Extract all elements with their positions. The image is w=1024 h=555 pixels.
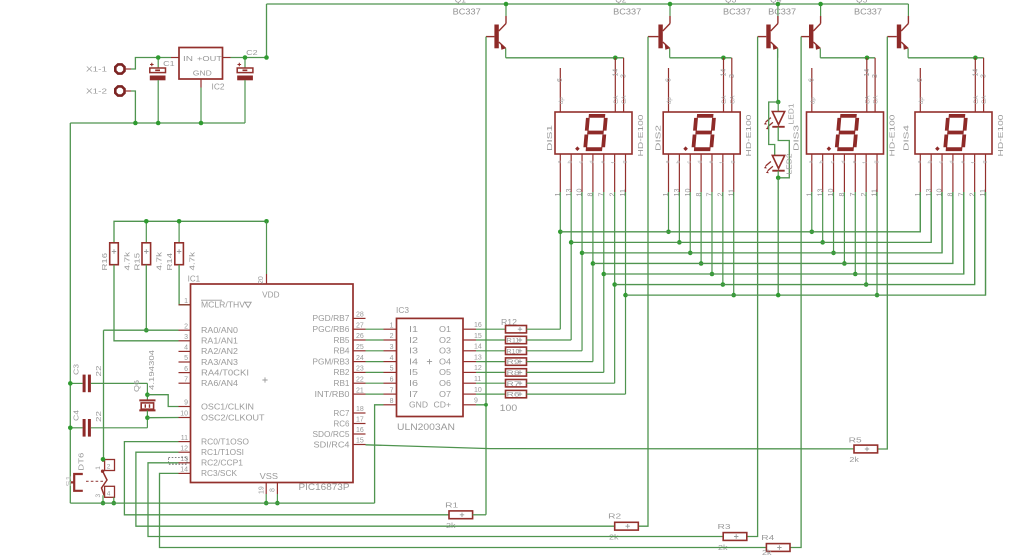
svg-text:21: 21 [356,387,364,394]
svg-text:BC337: BC337 [768,6,796,16]
resistor R12 [476,326,527,333]
svg-text:7: 7 [184,376,188,383]
wire RB1 to ULN input [366,382,384,384]
pin 24 PGM/RB3 [313,355,366,367]
wire RC0 to R1 row [124,442,449,515]
pin 1 MCLR/THV [179,298,252,310]
svg-text:4.7k: 4.7k [155,252,164,271]
svg-text:RC2/CCP1: RC2/CCP1 [201,459,243,468]
wire Q5 base drop to R5 [878,37,888,449]
wire PIC VDD pin riser [266,221,268,284]
svg-text:VSS: VSS [260,472,278,481]
junction C4 at ground drop [68,426,73,431]
pin 10 segment c of DIS1 [575,154,585,351]
svg-text:O4: O4 [439,357,452,366]
svg-text:8: 8 [390,398,394,405]
svg-text:I4: I4 [409,357,419,366]
pin 10 O7 [439,387,482,399]
wire Q3 emitter to LED chain [777,48,779,102]
svg-text:S1: S1 [64,476,73,487]
svg-text:3: 3 [184,334,188,341]
wire segment row 3 to riser [527,350,583,352]
transistor Q5 BC337 [887,4,908,58]
svg-text:d: d [949,160,955,163]
svg-text:X1-1: X1-1 [86,65,107,74]
junction crystal top node [145,392,150,397]
pin 8 VSS [270,483,278,504]
svg-text:C1: C1 [163,59,175,68]
svg-text:14: 14 [972,69,979,77]
pin 9 CD+ [434,398,479,410]
svg-text:GND: GND [409,401,428,410]
svg-text:CA: CA [874,96,880,104]
svg-text:RA3/AN3: RA3/AN3 [201,358,238,367]
wire R1 to Q1 base net [473,514,486,516]
wire Q2 base drop to R2 [638,37,649,527]
pin 1 segment a of DIS2 [661,154,671,232]
svg-text:CA: CA [974,96,980,104]
junction CD+ node [484,403,488,407]
junction DIS2 segment c at bus [688,251,693,256]
svg-text:17: 17 [356,417,364,424]
pin 11 segment g of DIS4 [978,154,988,295]
resistor R5 [854,445,878,453]
svg-text:RB1: RB1 [334,379,350,388]
svg-text:HD-E100: HD-E100 [636,115,645,157]
pin 18 RC7 [334,406,366,418]
svg-text:6: 6 [665,78,672,82]
svg-text:23: 23 [356,366,364,373]
pin 14 RC3/SCK [179,467,238,479]
svg-text:28: 28 [356,312,364,319]
wire R15 to RA0 [145,265,147,331]
svg-text:R4: R4 [761,533,774,542]
svg-text:CA: CA [622,96,628,104]
junction DIS1 segment e at bus [601,272,606,277]
svg-text:RA1/AN1: RA1/AN1 [201,337,238,346]
svg-text:13: 13 [474,354,482,361]
svg-text:5: 5 [390,366,394,373]
pin 13 segment b of DIS4 [924,154,934,242]
pin 14 CA of DIS2 [721,58,729,112]
transistor Q2 BC337 [648,4,670,58]
wire Q5 emitter to DIS4 CA [908,57,984,59]
pin 8 GND [384,398,429,410]
svg-text:Q5: Q5 [856,0,868,4]
svg-text:g: g [982,160,988,163]
uln origin cross [427,359,432,364]
svg-text:RB4: RB4 [334,347,351,356]
pin 7 RA6/AN4 [179,376,239,388]
junction DIS3 segment c at bus [831,251,836,256]
svg-text:Q3: Q3 [725,0,737,4]
svg-text:Q2: Q2 [615,0,627,4]
svg-text:I5: I5 [409,368,419,377]
wire segment bus line 3 [582,192,942,253]
wire Q1 emitter to DIS1 CA [506,57,624,59]
svg-text:HD-E100: HD-E100 [888,115,897,157]
svg-text:g: g [730,160,736,163]
svg-text:IC3: IC3 [396,306,410,315]
digit 8 of DIS4 [945,116,966,149]
wire segment bus line 4 [593,192,953,263]
junction VCC node at regulator output [264,55,269,60]
wire segment row 1 to riser [527,328,561,330]
wire RC1 to R2 row [136,452,615,526]
pin 2 RA0/AN0 [179,323,239,335]
pin 1 segment a of DIS1 [553,154,563,329]
svg-text:26: 26 [356,333,364,340]
svg-text:Q6: Q6 [132,380,141,392]
svg-text:12: 12 [180,445,188,452]
svg-text:RA6/AN4: RA6/AN4 [201,379,239,388]
svg-text:X1-2: X1-2 [86,87,107,96]
pin 25 RB4 [334,344,366,356]
svg-text:O3: O3 [439,347,451,356]
wire segment bus line 7 [626,192,986,295]
wire segment row 5 to riser [527,371,604,373]
svg-text:O5: O5 [439,368,452,377]
pin 8 segment d of DIS2 [694,154,704,263]
svg-text:PGM/RB3: PGM/RB3 [313,357,350,366]
pin 15 O2 [439,333,482,345]
svg-text:DIS4: DIS4 [902,125,911,151]
connector pad X1-1 [115,64,131,73]
svg-text:SDO/RC5: SDO/RC5 [313,430,351,439]
pin 3 CA of DIS1 [621,58,629,112]
connector pad X1-2 [115,86,131,95]
svg-text:C3: C3 [72,364,81,375]
wire ground rail upper [70,122,245,124]
pin 8 segment d of DIS1 [586,154,596,362]
svg-text:2k: 2k [849,455,859,464]
svg-text:IC2: IC2 [212,83,226,92]
svg-text:RC0/T1OSO: RC0/T1OSO [201,437,249,446]
svg-text:RA2/AN2: RA2/AN2 [201,347,238,356]
junction LED at bus line 7 [776,293,781,298]
wire segment bus line 1 [560,192,920,232]
svg-text:I7: I7 [409,390,418,399]
pin 2 segment f of DIS1 [607,154,617,383]
wire VCC riser to top rail [266,4,268,58]
svg-text:1: 1 [390,322,394,329]
pin 14 O3 [439,344,482,356]
pin 11 segment g of DIS2 [726,154,736,295]
svg-text:RC6: RC6 [334,419,350,428]
svg-text:I3: I3 [409,347,418,356]
pin 21 INT/RB0 [315,387,366,399]
pin 9 OSC1/CLKIN [179,400,255,412]
svg-text:4.194304: 4.194304 [147,350,156,390]
resistor R9 [476,358,527,366]
wire RA0 net to switch [104,329,179,331]
svg-text:O6: O6 [439,379,451,388]
pin 19 VSS [259,472,279,503]
driver IC3 ULN2003AN body [397,318,464,416]
svg-text:3: 3 [729,74,736,78]
transistor Q4 BC337 [801,4,821,58]
svg-text:7: 7 [390,387,394,394]
junction crystal bottom node [145,415,150,420]
pin 6 dp of DIS4 [917,68,925,112]
svg-text:6: 6 [557,78,564,82]
svg-text:RC3/SCK: RC3/SCK [201,469,238,478]
svg-text:20: 20 [258,276,265,284]
pin 13 O4 [439,354,482,366]
pin 11 segment g of DIS3 [870,154,880,295]
svg-text:DIS2: DIS2 [653,125,662,151]
svg-text:dp: dp [810,97,816,104]
svg-text:RA4/T0CKI: RA4/T0CKI [201,368,249,377]
svg-text:4.7k: 4.7k [187,252,196,271]
resistor R11 [476,336,527,344]
svg-text:e: e [708,160,714,163]
pin 6 dp of DIS3 [809,68,817,112]
junction DIS1 segment d at bus [591,261,596,266]
svg-text:c: c [687,161,693,164]
junction C2 top [243,55,248,60]
junction DIS1 segment g at bus [623,293,628,298]
svg-text:18: 18 [356,406,364,413]
wire top VCC rail [267,3,909,5]
svg-text:22: 22 [94,366,103,377]
svg-text:11: 11 [474,376,481,383]
junction VDD rail at PIC VDD riser [264,219,269,224]
svg-text:e: e [600,160,606,163]
svg-text:GND: GND [193,68,212,77]
wire R14 to MCLR [179,265,190,305]
pin 1 I1 [384,322,419,334]
pin 4 RA2/AN2 [179,345,239,357]
svg-text:CA: CA [614,96,620,104]
svg-text:4: 4 [184,345,188,352]
junction DIS2 segment g at bus [731,293,736,298]
svg-text:LED1: LED1 [789,103,796,124]
svg-text:I6: I6 [409,379,418,388]
pin 7 segment e of DIS3 [848,154,858,274]
junction R15 at RA0 net [144,328,149,333]
pin 13 RC2/CCP1 [179,456,244,468]
svg-text:27: 27 [356,322,364,329]
pin 14 CA of DIS4 [972,58,980,112]
svg-text:14: 14 [180,467,188,474]
junction DIS3 segment b at bus [820,240,825,245]
wire RB4 to ULN input [366,350,384,352]
junction X1-2 at upper ground rail [133,121,138,126]
svg-text:R5: R5 [849,436,862,445]
svg-text:10: 10 [180,411,188,418]
wire ULN GND pin drop [375,405,384,503]
wire X1-2 to ground net [131,91,135,123]
junction DIS3 segment d at bus [842,261,847,266]
svg-text:12: 12 [474,365,482,372]
svg-text:PGD/RB7: PGD/RB7 [313,314,350,323]
svg-text:c: c [939,161,945,164]
pin 7 segment e of DIS1 [596,154,606,372]
wire segment row 6 to riser [527,382,615,384]
svg-text:2: 2 [390,333,394,340]
svg-text:CA: CA [730,96,736,104]
pin 6 dp of DIS2 [665,68,673,112]
pin 10 OSC2/CLKOUT [179,411,265,423]
pin 1 segment a of DIS4 [913,154,923,232]
svg-text:14: 14 [864,69,871,77]
resistor R10 [476,347,527,355]
junction DIS2 segment d at bus [699,261,704,266]
junction DIS1 segment a at bus [558,230,563,235]
svg-text:16: 16 [474,322,482,329]
svg-text:CA: CA [865,96,871,104]
junction DIS3 segment g at bus [875,293,880,298]
svg-text:14: 14 [721,69,728,77]
svg-text:RC7: RC7 [334,409,350,418]
svg-text:BC337: BC337 [854,6,882,16]
LED LED1 [764,102,785,129]
pin 2 segment f of DIS4 [967,154,977,285]
microcontroller IC1 PIC16873P body [191,284,354,483]
svg-text:4: 4 [390,355,394,362]
pin 12 O5 [439,365,482,377]
wire segment row 4 to riser [527,361,593,363]
wire Q4 base drop to R4 [790,37,801,548]
wire CD+ to Q1 base net [476,405,486,515]
pin 23 RB2 [334,366,366,378]
junction DIS3 segment e at bus [853,272,858,277]
pin 6 RA4/T0CKI [179,366,250,378]
resistor R7 [476,380,527,388]
junction R15 top at VDD rail [144,219,149,224]
wire RC3 to R4 row [160,473,767,547]
resistor R6 [476,390,527,398]
junction LED chain top [776,100,781,105]
pin 8 segment d of DIS4 [946,154,956,263]
junction DIS1 segment c at bus [580,251,585,256]
svg-text:RB2: RB2 [334,368,350,377]
wire segment row 2 to riser [527,339,572,341]
svg-text:3: 3 [390,344,394,351]
svg-text:e: e [852,160,858,163]
pin 16 O1 [439,322,482,334]
junction DIS2 segment b at bus [677,240,682,245]
pin 12 RC1/T1OSI [179,445,245,457]
display DIS2 HD-E100 body [663,112,740,154]
wire SDI/RC4 to R5 [366,445,855,449]
svg-text:6: 6 [390,376,394,383]
resistor R3 [723,533,747,541]
resistor R8 [476,369,527,377]
svg-text:BC337: BC337 [723,6,751,16]
wire segment row 7 to riser [527,393,626,395]
svg-text:25: 25 [356,344,364,351]
svg-text:8: 8 [270,488,277,492]
svg-text:IN: IN [183,54,193,63]
pin 11 O6 [439,376,481,388]
svg-text:+OUT: +OUT [197,54,223,63]
wire Q1 base drop [485,37,487,405]
pin 1 segment a of DIS3 [805,154,815,232]
svg-text:d: d [589,160,595,163]
svg-text:MCLR/THV: MCLR/THV [201,301,246,310]
pin 20 VDD [258,276,280,299]
junction DIS1 segment b at bus [569,240,574,245]
svg-text:BC337: BC337 [613,6,641,16]
capacitor C3 [70,375,147,393]
wire Q2 emitter to DIS2 CA [670,57,732,59]
junction Q1 collector at VCC rail [504,2,509,7]
svg-text:c: c [830,161,836,164]
resistor R4 [766,544,790,552]
svg-text:R3: R3 [718,522,731,531]
resistor R14 [175,221,184,264]
svg-text:6: 6 [809,78,816,82]
pin 7 segment e of DIS4 [956,154,966,274]
pin 5 RA3/AN3 [179,355,239,367]
junction switch pin4 at ground rail [112,501,117,506]
junction C1 top [156,55,161,60]
resistor R16 [110,243,119,265]
pin 7 I7 [384,387,419,399]
pin 7 segment e of DIS2 [705,154,715,274]
wire segment bus line 5 [604,192,964,274]
svg-text:4: 4 [107,491,111,498]
svg-text:16: 16 [356,427,364,434]
pin 3 I3 [384,344,419,356]
svg-text:OSC2/CLKOUT: OSC2/CLKOUT [201,413,265,422]
svg-text:3: 3 [621,74,628,78]
decimal point of DIS3 [827,146,832,151]
pin 14 CA of DIS1 [612,58,620,112]
svg-text:DIS3: DIS3 [791,125,800,151]
transistor Q3 BC337 [758,4,778,58]
pin 6 dp of DIS1 [557,68,565,112]
svg-text:15: 15 [474,333,482,340]
pin 2 segment f of DIS3 [859,154,869,285]
svg-text:4.7k: 4.7k [122,252,131,271]
junction C3 at ground drop [68,381,73,386]
svg-text:RB5: RB5 [334,336,351,345]
digit 8 of DIS3 [837,116,858,149]
svg-text:HD-E100: HD-E100 [996,115,1005,157]
pin 2 segment f of DIS2 [716,154,726,285]
wire crystal top to OSC1 [147,395,178,407]
junction DIS1 CA pin14 [613,56,618,61]
junction DIS3 CA pin14 [865,56,870,61]
wire left ground drop [69,123,71,503]
svg-text:Q1: Q1 [455,0,467,4]
wire RC2 to R3 row [148,463,723,537]
svg-text:g: g [622,160,628,163]
svg-text:9: 9 [184,400,188,407]
svg-text:1: 1 [95,466,102,470]
wire R16 to RA1 [114,265,179,341]
svg-text:e: e [960,160,966,163]
svg-text:I2: I2 [409,336,418,345]
svg-text:SDI/RC4: SDI/RC4 [314,440,351,449]
pin 17 RC6 [334,417,366,429]
pin 13 segment b of DIS2 [672,154,682,242]
svg-text:15: 15 [356,438,364,445]
switch S1 DT6 [71,459,115,503]
svg-text:R15: R15 [132,253,141,271]
svg-text:19: 19 [259,486,266,494]
wire IC2 ground pin [200,88,202,124]
svg-text:dp: dp [559,97,565,104]
junction Q4 collector at VCC rail [818,2,823,7]
pin 11 segment g of DIS1 [618,154,628,394]
pin 3 RA1/AN1 [179,334,239,346]
junction switch top at RA0 net [101,457,106,462]
capacitor C2 [237,58,253,124]
